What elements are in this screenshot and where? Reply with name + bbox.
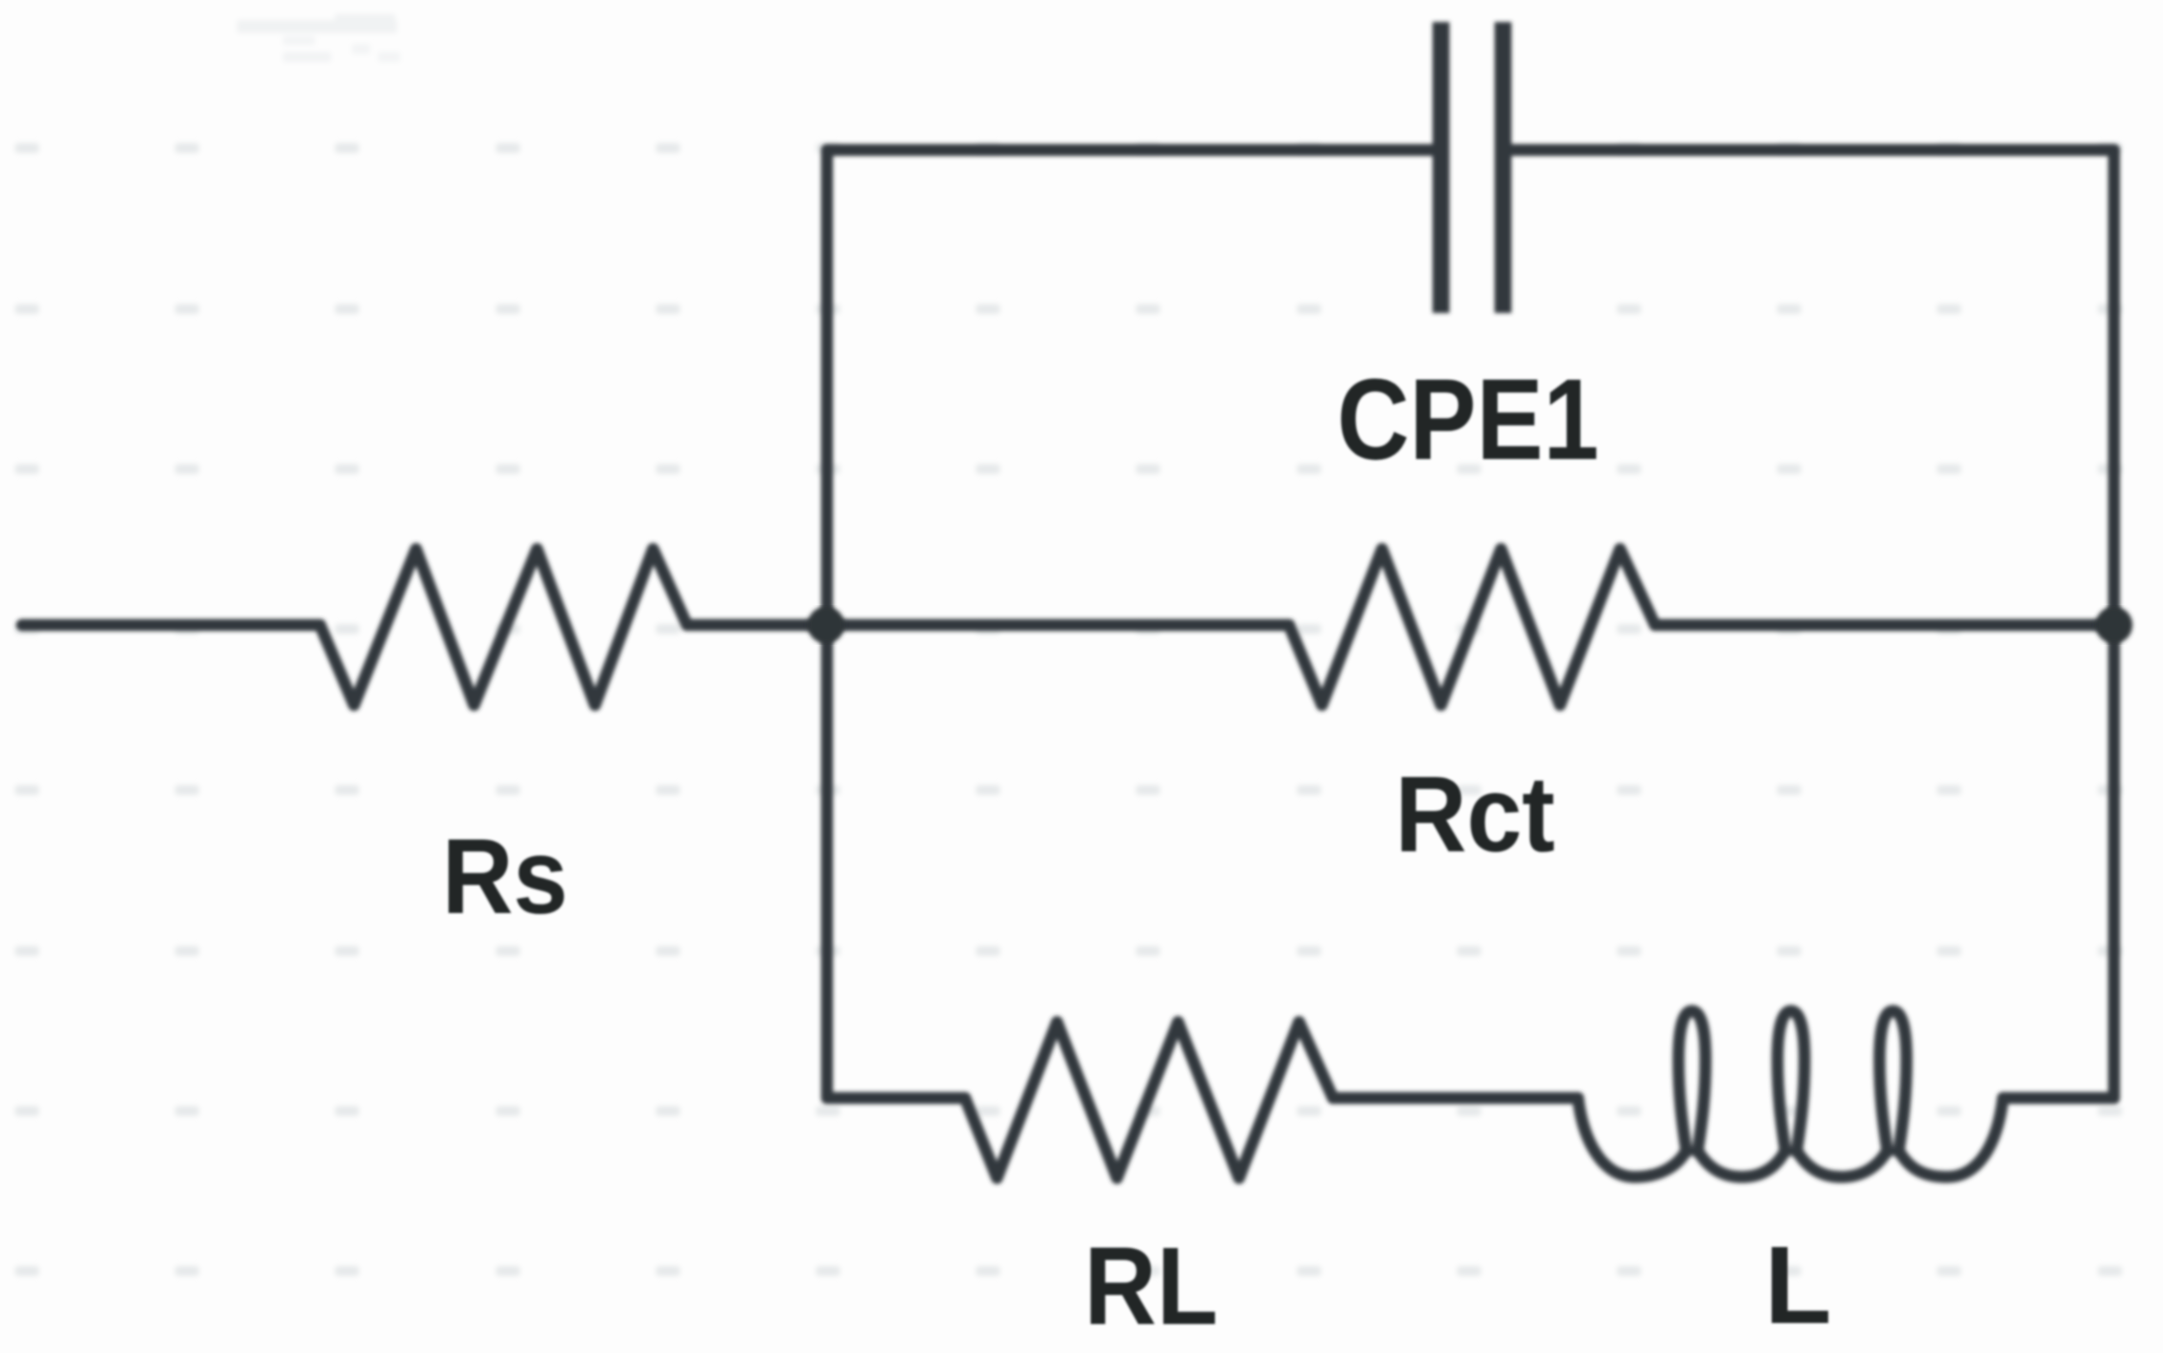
inductor L xyxy=(1578,1011,2003,1177)
node right junction xyxy=(2096,607,2133,644)
svg-text:Rs: Rs xyxy=(442,816,568,936)
resistor Rct xyxy=(1289,549,1655,705)
svg-text:RL: RL xyxy=(1084,1225,1218,1348)
wire right branch vertical xyxy=(2108,150,2120,1098)
resistor Rs xyxy=(320,549,687,705)
wire bottom middle segment xyxy=(1333,1092,1578,1104)
resistor RL xyxy=(965,1022,1333,1178)
node left junction xyxy=(808,607,845,644)
wire top left segment xyxy=(827,144,1433,156)
label Rs xyxy=(442,816,568,936)
wire to right node xyxy=(1655,619,2114,631)
label RL xyxy=(1084,1225,1218,1348)
svg-text:L: L xyxy=(1764,1224,1831,1347)
svg-text:Rct: Rct xyxy=(1395,753,1555,874)
wire top right segment xyxy=(1511,144,2114,156)
label Rct xyxy=(1395,753,1555,874)
wire left branch vertical xyxy=(821,150,833,1098)
svg-text:CPE1: CPE1 xyxy=(1337,356,1599,484)
wire bottom left segment xyxy=(827,1092,965,1104)
wire left lead xyxy=(22,619,320,631)
wire bottom right segment xyxy=(2003,1092,2114,1104)
capacitor CPE1 xyxy=(1441,22,1503,313)
label L xyxy=(1764,1224,1831,1347)
wire middle segment xyxy=(687,619,1289,631)
label CPE1 xyxy=(1337,356,1599,484)
